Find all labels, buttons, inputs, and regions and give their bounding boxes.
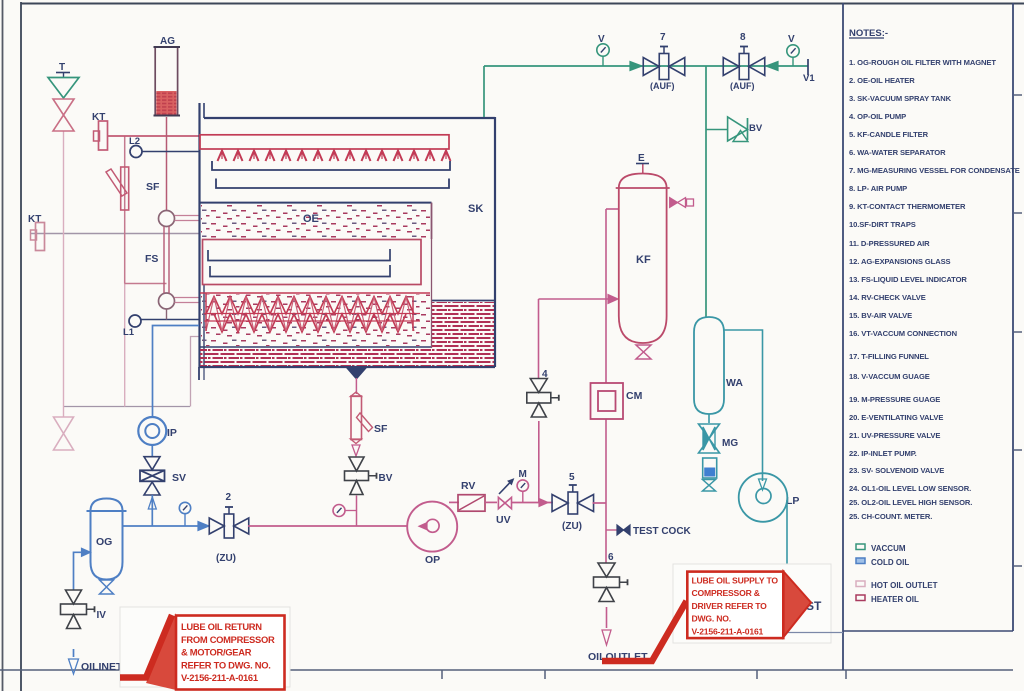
svg-text:WA: WA [726, 377, 743, 389]
svg-text:COLD OIL: COLD OIL [871, 558, 909, 567]
wire bypass from KF inlet line [538, 299, 540, 378]
svg-text:FROM COMPRESSOR: FROM COMPRESSOR [181, 634, 275, 645]
spray tray 2 [216, 179, 449, 189]
wire RV to UV [485, 501, 497, 503]
svg-text:DRIVER REFER TO: DRIVER REFER TO [692, 601, 768, 611]
svg-text:25. OL2-OIL LEVEL HIGH SENSOR.: 25. OL2-OIL LEVEL HIGH SENSOR. [849, 498, 972, 507]
svg-text:21. UV-PRESSURE VALVE: 21. UV-PRESSURE VALVE [849, 431, 940, 440]
oil heater OE chamber [199, 202, 432, 204]
wire WA to LP [724, 330, 763, 481]
svg-text:1. OG-ROUGH OIL FILTER WITH MA: 1. OG-ROUGH OIL FILTER WITH MAGNET [849, 58, 996, 67]
callout ribbon left [146, 613, 176, 690]
svg-text:NOTES:-: NOTES:- [849, 28, 888, 39]
svg-text:25. CH-COUNT. METER.: 25. CH-COUNT. METER. [849, 512, 932, 521]
wire flow arrow right [630, 62, 642, 71]
legend vacuum [856, 544, 865, 550]
wire pale tank drain [191, 337, 200, 407]
vacuum connection V1 [807, 59, 809, 75]
svg-text:LUBE OIL SUPPLY TO: LUBE OIL SUPPLY TO [692, 576, 779, 586]
pressure gauge on discharge [179, 502, 190, 513]
wire pale riser x=125 [124, 136, 126, 284]
wire oil outlet arrow [606, 607, 608, 628]
svg-text:2. OE-OIL HEATER: 2. OE-OIL HEATER [849, 76, 915, 85]
heater element 2 [210, 265, 390, 277]
heater element 1 [208, 249, 390, 261]
tank outlet funnel [347, 368, 366, 379]
svg-text:2: 2 [226, 492, 232, 503]
svg-text:8. LP- AIR PUMP: 8. LP- AIR PUMP [849, 184, 907, 193]
oil level low sensor L1 [129, 315, 141, 327]
wire AG stem [166, 117, 168, 210]
wire oil inlet arrow [73, 649, 75, 657]
heater coil band [200, 292, 430, 294]
wire KF top connection [606, 208, 618, 210]
wire trap outlet arrow [352, 445, 360, 456]
border tick marks [441, 670, 443, 679]
heater element frame [203, 240, 422, 285]
svg-text:REFER TO DWG. NO.: REFER TO DWG. NO. [181, 659, 271, 670]
svg-text:HEATER OIL: HEATER OIL [871, 595, 919, 604]
KF drain valve [636, 345, 651, 352]
svg-text:24. OL1-OIL LEVEL LOW SENSOR.: 24. OL1-OIL LEVEL LOW SENSOR. [849, 484, 971, 493]
callout box right [687, 572, 783, 639]
svg-text:20. E-VENTILATING VALVE: 20. E-VENTILATING VALVE [849, 413, 943, 422]
svg-text:SK: SK [468, 203, 483, 215]
legend hot oil outlet [856, 581, 865, 587]
spray tray 1 [212, 161, 450, 170]
svg-text:17. T-FILLING FUNNEL: 17. T-FILLING FUNNEL [849, 352, 929, 361]
wire FS lower stubs [175, 297, 200, 299]
wire flow arrow to valve 2 [198, 522, 209, 531]
wire vacuum main top [484, 65, 808, 67]
wire valve5 to main riser [593, 502, 607, 504]
svg-text:OG: OG [96, 536, 112, 548]
svg-text:LUBE OIL RETURN: LUBE OIL RETURN [181, 621, 262, 632]
wire branch to BV top [706, 129, 728, 131]
svg-text:19. M-PRESSURE GUAGE: 19. M-PRESSURE GUAGE [849, 395, 940, 404]
svg-text:12. AG-EXPANSIONS GLASS: 12. AG-EXPANSIONS GLASS [849, 257, 951, 266]
svg-text:5. KF-CANDLE FILTER: 5. KF-CANDLE FILTER [849, 130, 929, 139]
svg-text:7: 7 [660, 32, 666, 43]
svg-text:8: 8 [740, 32, 746, 43]
svg-text:IV: IV [97, 610, 107, 621]
svg-text:(ZU): (ZU) [216, 553, 236, 564]
wire filling funnel drop line [63, 131, 65, 417]
svg-text:CM: CM [626, 390, 643, 402]
wire bypass junction arrow [539, 499, 548, 507]
wire L1 to tank [141, 319, 199, 321]
svg-text:VACCUM: VACCUM [871, 544, 906, 553]
wire IP to SV [151, 445, 153, 457]
wire valve4 down to pump line [538, 421, 540, 503]
svg-text:OILINET: OILINET [81, 661, 123, 673]
svg-text:13. FS-LIQUID LEVEL INDICATOR: 13. FS-LIQUID LEVEL INDICATOR [849, 275, 967, 284]
wire BV drain [356, 496, 358, 527]
svg-text:23. SV- SOLVENOID VALVE: 23. SV- SOLVENOID VALVE [849, 466, 944, 475]
wire OG inlet [74, 552, 83, 590]
svg-text:V1: V1 [803, 73, 815, 84]
MG drain valve [703, 480, 716, 486]
condensate vessel MG glass [703, 458, 717, 478]
svg-text:3. SK-VACUUM SPRAY TANK: 3. SK-VACUUM SPRAY TANK [849, 94, 952, 103]
svg-text:L1: L1 [123, 327, 135, 338]
svg-text:9. KT-CONTACT THERMOMETER: 9. KT-CONTACT THERMOMETER [849, 202, 966, 211]
wire faint bottom connector [778, 632, 843, 634]
svg-text:BV: BV [379, 473, 393, 484]
legend heater oil [856, 595, 865, 601]
oil sump texture bottom [199, 346, 431, 348]
svg-text:(ZU): (ZU) [562, 521, 582, 532]
svg-text:7. MG-MEASURING VESSEL FOR CON: 7. MG-MEASURING VESSEL FOR CONDENSATE [849, 166, 1020, 175]
wire valve2 to oil pump [248, 525, 408, 527]
svg-text:18. V-VACCUM GUAGE: 18. V-VACCUM GUAGE [849, 372, 930, 381]
svg-text:TEST COCK: TEST COCK [633, 526, 692, 537]
svg-text:11. D-PRESSURED AIR: 11. D-PRESSURED AIR [849, 239, 930, 248]
svg-text:V: V [788, 34, 795, 45]
wire KF inlet bottom [539, 298, 611, 300]
svg-text:E: E [638, 153, 645, 164]
OG drain valve [100, 580, 114, 587]
wire flow arrow left into valve 8 [766, 62, 778, 71]
wire L2 to tank [142, 151, 199, 153]
svg-text:6. WA-WATER SEPARATOR: 6. WA-WATER SEPARATOR [849, 148, 946, 157]
svg-text:V-2156-211-A-0161: V-2156-211-A-0161 [181, 672, 258, 683]
wire FS upper stubs [175, 215, 200, 217]
svg-text:6: 6 [608, 552, 614, 563]
svg-text:MG: MG [722, 438, 738, 449]
pressure gauge at BV drain [333, 505, 345, 517]
svg-text:HOT OIL OUTLET: HOT OIL OUTLET [871, 581, 938, 590]
svg-text:COMPRESSOR &: COMPRESSOR & [692, 588, 760, 598]
svg-text:(AUF): (AUF) [650, 81, 675, 91]
legend cold oil [856, 558, 865, 564]
svg-text:M: M [519, 469, 527, 480]
callout ribbon right [602, 601, 687, 661]
wire SV down + arrow [151, 495, 153, 526]
svg-text:16. VT-VACCUM CONNECTION: 16. VT-VACCUM CONNECTION [849, 329, 957, 338]
svg-text:22. IP-INLET PUMP.: 22. IP-INLET PUMP. [849, 449, 917, 458]
wire main riser [605, 209, 607, 299]
wire WA to MG [708, 414, 710, 423]
callout patch left [120, 607, 290, 687]
svg-text:FS: FS [145, 253, 158, 265]
svg-text:V-2156-211-A-0161: V-2156-211-A-0161 [692, 626, 764, 636]
svg-text:RV: RV [461, 480, 475, 492]
svg-text:OP: OP [425, 554, 440, 566]
wire LP outlet [786, 500, 788, 564]
svg-text:DWG. NO.: DWG. NO. [692, 614, 731, 624]
valve below funnel [53, 99, 74, 115]
svg-text:T: T [59, 62, 65, 73]
wire hot feed to spray manifold [108, 135, 201, 137]
svg-text:OE: OE [303, 213, 319, 225]
svg-text:BV: BV [749, 123, 763, 134]
spray manifold pipe [200, 135, 449, 149]
callout box left [176, 616, 285, 690]
callout arrow right [784, 572, 812, 638]
svg-text:4. OP-OIL PUMP: 4. OP-OIL PUMP [849, 112, 906, 121]
spray nozzles [218, 151, 451, 162]
svg-text:5: 5 [569, 472, 575, 483]
wire pale drain header [64, 406, 191, 408]
wire pale branch to FS [125, 283, 167, 285]
svg-text:10.SF-DIRT TRAPS: 10.SF-DIRT TRAPS [849, 220, 916, 229]
wire funnel to dirt trap [355, 378, 357, 394]
svg-text:UV: UV [496, 514, 511, 526]
wire tank suction to inlet pump [153, 326, 200, 418]
svg-text:& MOTOR/GEAR: & MOTOR/GEAR [181, 647, 252, 658]
sheet outer border [2, 0, 4, 691]
svg-text:SF: SF [146, 181, 160, 193]
svg-text:AG: AG [160, 36, 175, 47]
valve on drain line [54, 417, 74, 434]
svg-text:SF: SF [374, 423, 388, 435]
svg-text:(AUF): (AUF) [730, 81, 755, 91]
svg-text:15. BV-AIR VALVE: 15. BV-AIR VALVE [849, 311, 912, 320]
svg-text:IP: IP [167, 427, 177, 439]
wire UV to valve 5 [512, 502, 554, 504]
vent valve on KF dome [670, 198, 678, 208]
callout patch right [673, 564, 831, 643]
wire OG discharge [123, 525, 210, 527]
svg-text:SV: SV [172, 472, 186, 484]
svg-text:14. RV-CHECK VALVE: 14. RV-CHECK VALVE [849, 293, 926, 302]
oil sump right [432, 300, 496, 302]
wire OP discharge [449, 501, 459, 503]
wire contact-thermometer line KT [30, 233, 199, 235]
svg-text:KF: KF [636, 254, 651, 266]
notes list [849, 58, 1020, 521]
notes panel frame [842, 3, 844, 670]
wire vacuum riser [705, 66, 707, 318]
